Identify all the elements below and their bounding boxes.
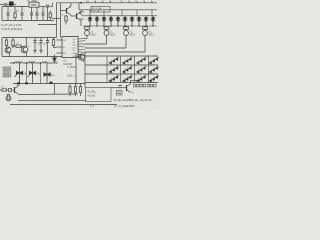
LED row D2-D11 xyxy=(88,16,155,26)
wire inductor feed xyxy=(10,62,15,64)
staircase bus 4 xyxy=(85,37,145,52)
wire rail drop c3 xyxy=(121,10,123,16)
capacitor C10 xyxy=(9,88,14,91)
capacitor C8 xyxy=(39,38,42,54)
wire drop to second rail xyxy=(78,3,80,10)
wire after L2 xyxy=(35,62,42,64)
matrix column v1 xyxy=(106,56,108,83)
resistor R6 xyxy=(12,38,14,49)
wire left bus xyxy=(1,38,3,57)
diode D12 below IC xyxy=(53,55,57,64)
resistor R21 xyxy=(79,84,81,97)
wire power top rail xyxy=(2,6,29,8)
capacitor C3 electrolytic xyxy=(21,7,24,21)
capacitor C2 xyxy=(7,7,10,21)
wire after L3 xyxy=(48,62,59,64)
junction dot j1 xyxy=(13,62,15,64)
wire left bus down xyxy=(1,7,3,21)
resistor R1 xyxy=(14,7,16,21)
transistor T6 xyxy=(15,84,20,95)
matrix column v2 xyxy=(120,56,122,83)
wire box to T7 xyxy=(111,87,125,89)
junction blob rail b1 xyxy=(17,82,20,84)
bridge rectifier D1 xyxy=(7,2,16,7)
capacitor C4 under regulator pin1 xyxy=(30,7,33,20)
transistor T1 xyxy=(5,47,11,57)
junction blob rail b2 xyxy=(25,82,28,84)
resistor R2 xyxy=(49,11,51,21)
IC pin labels right column xyxy=(73,39,77,58)
diagonal LED cluster template xyxy=(109,56,160,82)
wire second rail xyxy=(79,9,157,11)
capacitor C1 electrolytic at output xyxy=(46,3,53,21)
triac Q2 xyxy=(28,63,36,84)
wire LED anode bus xyxy=(83,15,157,17)
triac Q3 xyxy=(44,63,50,84)
wire secondary line xyxy=(38,24,57,26)
capacitor C11 circle xyxy=(6,96,11,101)
resistor R5 xyxy=(5,38,7,48)
resistor R18 under xyxy=(7,95,10,100)
wire return bus 2 xyxy=(18,99,86,101)
matrix column v3 xyxy=(134,56,136,83)
inductor L2 xyxy=(28,62,35,63)
capacitor C5 under regulator pin2 xyxy=(36,7,39,20)
capacitor C12 near T7 xyxy=(118,86,122,88)
notes box xyxy=(86,88,112,102)
junction dot j2 xyxy=(26,62,28,64)
IC right pins fan xyxy=(78,39,85,58)
wire LED cathode bus xyxy=(83,25,157,27)
wire T6a emitter down xyxy=(80,21,82,27)
transistor T4 xyxy=(76,54,85,62)
LED indicator symbol left xyxy=(79,11,84,16)
triac Q1 xyxy=(15,63,23,84)
staircase bus 1 xyxy=(84,37,87,38)
resistor R20 xyxy=(74,84,76,97)
transistor T7 xyxy=(125,80,140,92)
T4 labels xyxy=(67,66,76,78)
relay K contacts xyxy=(117,91,123,96)
matrix row line 2 xyxy=(85,64,158,66)
transistor T6a xyxy=(71,10,81,21)
matrix row line 3 xyxy=(85,73,158,75)
wire bottom rail left xyxy=(13,83,85,85)
wire multivib top rail xyxy=(2,37,57,39)
junction blob rail b0 xyxy=(50,82,53,84)
wire rail drop c2 xyxy=(103,10,105,16)
matrix row line 1 xyxy=(85,55,158,57)
IC left pin 3 xyxy=(57,52,63,54)
wire link to bus xyxy=(52,18,61,20)
resistor R7 horizontal xyxy=(13,45,23,47)
capacitor C9 xyxy=(46,38,49,57)
resistor R19 xyxy=(69,84,71,97)
IC U1 box xyxy=(62,37,78,58)
wire rail drop c1 xyxy=(89,10,91,16)
resistor R8 xyxy=(52,38,56,48)
regulator IC1 box xyxy=(29,2,46,7)
matrix left bus xyxy=(84,52,86,88)
wire between coils xyxy=(22,62,28,64)
capacitor C7 xyxy=(33,38,36,54)
wire multivib bottom rail xyxy=(2,56,62,58)
wire vertical bus A xyxy=(56,3,58,38)
driver labels xyxy=(91,31,155,37)
wire drop x40.5 xyxy=(40,63,42,84)
inductor L3 xyxy=(42,62,47,63)
IC left pin 2 xyxy=(57,46,63,48)
cluster labels row1 xyxy=(109,64,155,83)
left CJK labels xyxy=(3,67,11,77)
IC left pin 1 xyxy=(57,39,63,41)
junction dots LED cathode bus xyxy=(89,25,153,26)
column driver transistors xyxy=(85,26,148,37)
IC pin labels left column xyxy=(63,40,67,55)
wire return bus 3 xyxy=(10,104,117,106)
wire vertical bus x76 xyxy=(75,53,77,84)
inductor L1 xyxy=(15,62,22,63)
resistor R4 under T5 xyxy=(65,15,67,25)
pin numbers xyxy=(86,1,153,3)
wire AC input xyxy=(0,4,4,6)
matrix column v4 xyxy=(148,56,150,83)
capacitor C6 xyxy=(42,7,45,21)
wire rail drop c5 xyxy=(151,10,153,16)
staircase bus 2 xyxy=(85,37,107,44)
matrix row line 4 xyxy=(85,82,158,84)
junction dot on rail xyxy=(80,2,82,4)
wire drop x26.5 xyxy=(26,63,28,84)
wire main top rail xyxy=(57,2,158,4)
junction dot j3 xyxy=(40,62,42,64)
staircase bus 3 xyxy=(85,37,126,48)
resistor R17 xyxy=(0,89,8,91)
bottom-right CJK note xyxy=(134,84,157,87)
wire T6 emitter right xyxy=(19,93,78,96)
plug P1 xyxy=(4,3,6,5)
label box BT xyxy=(91,6,110,12)
wire vertical bus B xyxy=(60,3,62,38)
transistor T5 xyxy=(61,3,72,15)
wire rail drop c4 xyxy=(136,10,138,16)
transistor T2 xyxy=(21,38,28,57)
pin ticks on top rail xyxy=(88,1,152,3)
wire L drop xyxy=(54,84,56,95)
triac labels xyxy=(23,74,54,78)
wire power ground rail xyxy=(2,20,54,22)
